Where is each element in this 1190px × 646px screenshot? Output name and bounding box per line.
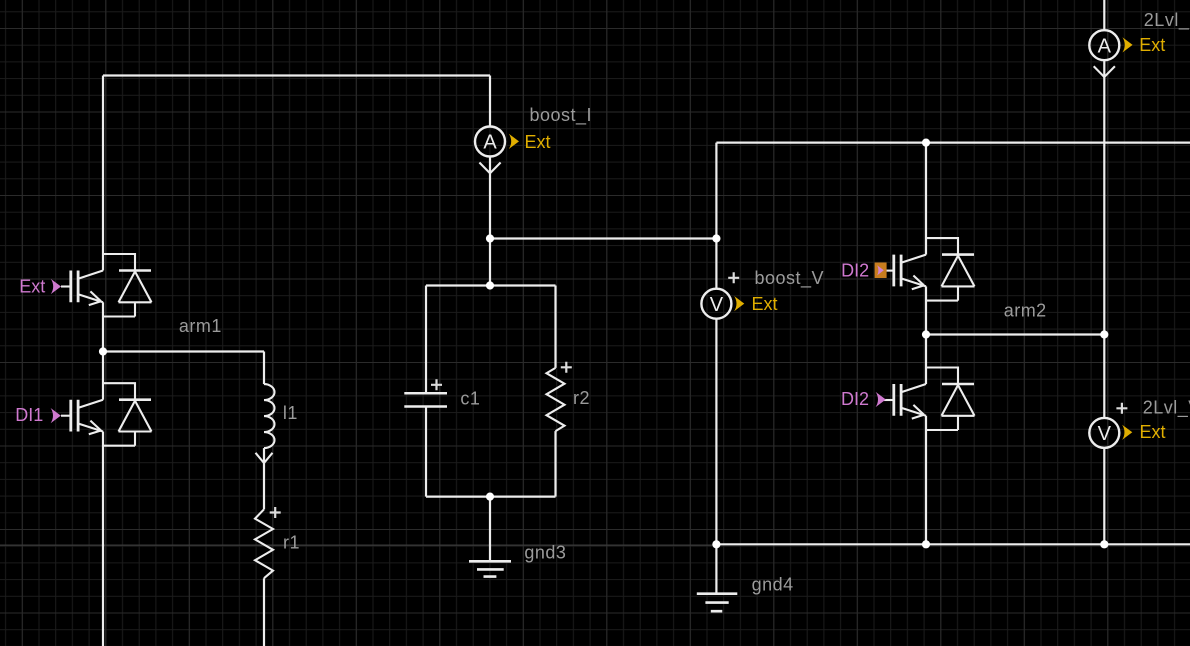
wire arm1 emitter bottom (102, 432, 104, 646)
svg-text:DI2: DI2 (841, 389, 869, 409)
voltmeter 2Lvl_V (1089, 418, 1119, 448)
capacitor c1 plates (404, 393, 447, 406)
marker output 2Lvl_V (1122, 425, 1132, 440)
wire node boost to boost_V (490, 237, 716, 239)
svg-text:V: V (710, 294, 724, 316)
junction boost node left (486, 234, 494, 242)
junction 2Lvl_V bottom (1100, 540, 1108, 548)
wire 2Lvl_I top lead (1103, 0, 1105, 30)
marker target box Q3 (875, 263, 887, 279)
wire l1 bottom lead (263, 448, 265, 509)
svg-text:r1: r1 (283, 533, 300, 553)
transistor Q4 IGBT DI2 arm2 bottom (884, 368, 975, 431)
wire ammeter boost_I top lead (489, 76, 491, 127)
wire top rail left (103, 74, 490, 76)
wire r2 top lead (554, 286, 556, 368)
wire boost_V top lead (715, 143, 717, 289)
ammeter boost_I (475, 127, 505, 157)
transistor Q1 IGBT Ext arm1 top (61, 254, 152, 317)
ammeter 2Lvl_I (1089, 30, 1119, 60)
wire c1 r2 bottom rail (426, 496, 556, 498)
svg-text:A: A (483, 132, 497, 154)
svg-text:c1: c1 (460, 389, 480, 409)
svg-text:Ext: Ext (1140, 422, 1166, 442)
wire top rail right (716, 142, 1190, 144)
wire arm2 to 2Lvl_V node (926, 333, 1104, 335)
junction gnd4 node (712, 540, 720, 548)
svg-text:V: V (1098, 423, 1112, 445)
resistor r2 (547, 368, 565, 431)
wire c1 bottom lead (425, 407, 427, 497)
wire l1 top lead (263, 352, 265, 385)
svg-text:arm1: arm1 (179, 316, 222, 336)
ground gnd4 (697, 594, 738, 612)
wire left arm collector drop (102, 76, 104, 271)
wire ammeter boost_I bottom lead (489, 157, 491, 239)
wire arm2 collector drop (925, 143, 927, 255)
wire arm1 to l1 (103, 350, 264, 352)
marker output boost_V (734, 296, 744, 311)
transistor Q2 IGBT DI1 arm1 bottom (61, 383, 152, 446)
svg-text:Ext: Ext (19, 277, 45, 297)
wire down to c1 rail (489, 239, 491, 286)
wire arm2 output (925, 286, 927, 384)
wire r1 bottom lead (263, 578, 265, 646)
polarity plus r1 (270, 507, 281, 518)
inductor l1 coil (264, 384, 275, 448)
svg-text:l1: l1 (283, 403, 298, 423)
voltmeter boost_V (701, 289, 731, 319)
junction arm2 output (922, 330, 930, 338)
wire 2Lvl_I bottom lead (1103, 60, 1105, 418)
junction arm1 output (99, 347, 107, 355)
arrow l1 direction (256, 453, 273, 463)
marker output 2Lvl_I (1122, 37, 1132, 52)
marker output boost_I (509, 134, 519, 149)
svg-text:DI1: DI1 (15, 405, 43, 425)
svg-text:boost_I: boost_I (530, 105, 593, 126)
svg-text:gnd3: gnd3 (524, 543, 566, 563)
svg-text:2Lvl_I: 2Lvl_I (1144, 10, 1190, 31)
wire c1 top lead (425, 286, 427, 394)
wire c1 r2 top rail (426, 284, 556, 286)
arrow 2Lvl_I direction (1094, 66, 1115, 77)
wire 2Lvl_V bottom lead (1103, 448, 1105, 544)
ground gnd3 (469, 561, 511, 576)
svg-text:Ext: Ext (525, 132, 551, 152)
wire gnd4 stem (715, 544, 717, 593)
svg-text:arm2: arm2 (1004, 301, 1047, 321)
svg-text:Ext: Ext (1139, 35, 1165, 55)
wire faint bottom rail guide (0, 544, 716, 546)
junction c1 top (486, 281, 494, 289)
polarity plus r2 (561, 362, 572, 373)
marker input DI1 Q2 (51, 408, 61, 423)
svg-text:r2: r2 (573, 388, 590, 408)
marker input Ext Q1 (51, 279, 61, 294)
junction boost node right (712, 234, 720, 242)
svg-text:boost_V: boost_V (755, 268, 825, 289)
svg-text:gnd4: gnd4 (752, 575, 794, 595)
transistor Q3 IGBT DI2 arm2 top (884, 238, 975, 301)
svg-text:A: A (1098, 35, 1112, 57)
wire arm2 emitter bottom (925, 416, 927, 545)
polarity plus boost_V (728, 272, 739, 283)
wire arm1 output (102, 302, 104, 399)
wire r2 bottom lead (554, 431, 556, 497)
junction 2Lvl_V top (1100, 330, 1108, 338)
junction arm2 emitter bottom (922, 540, 930, 548)
wire boost_V bottom lead (715, 319, 717, 545)
arrow boost_I direction (479, 163, 500, 174)
junction arm2 collector (922, 139, 930, 147)
junction c1 bottom (486, 493, 494, 501)
polarity plus c1 (431, 379, 442, 390)
wire bottom rail (716, 543, 1190, 545)
polarity plus 2Lvl_V (1116, 403, 1127, 414)
svg-text:2Lvl_V: 2Lvl_V (1143, 398, 1190, 419)
svg-text:DI2: DI2 (841, 260, 869, 280)
wire gnd3 stem (489, 497, 491, 562)
svg-text:Ext: Ext (752, 294, 778, 314)
resistor r1 (255, 509, 273, 578)
marker input DI2 Q4 (876, 392, 886, 407)
